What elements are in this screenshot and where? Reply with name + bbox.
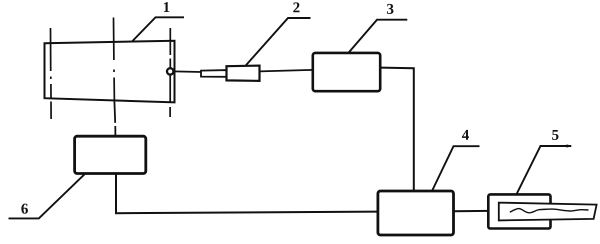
centerline right (169, 28, 171, 117)
block 3 (313, 53, 380, 91)
label 4 (462, 130, 469, 140)
wire block 3 to block 4 (381, 68, 414, 191)
centerline left (50, 28, 53, 119)
leader line 4 (432, 146, 480, 191)
label 2 (293, 2, 299, 12)
label 1 (164, 2, 170, 12)
sensor 2 body (227, 66, 260, 81)
block 1 body (test machine) (45, 41, 175, 103)
wire sensor to block 3 (260, 70, 314, 72)
block 5 paper strip (499, 203, 597, 221)
leader line 3 (348, 20, 407, 53)
sensor 2 shaft (thin box) (201, 70, 227, 77)
block 6 (75, 136, 146, 173)
label 6 (21, 204, 28, 214)
block 4 (378, 191, 454, 235)
centerline middle (113, 18, 116, 102)
leader line 6 (9, 174, 86, 219)
wire block 6 to block 4 (116, 174, 378, 214)
wire block 1 to block 6 (114, 101, 115, 137)
label 3 (387, 4, 393, 14)
block 5 recorder outer case (488, 194, 550, 228)
label 5 (552, 130, 558, 140)
leader line 2 (246, 18, 311, 66)
leader line 1 (133, 17, 185, 41)
recorded trace (wavy line) (510, 209, 589, 213)
shaft coupling circle (167, 68, 173, 74)
leader 5 arrow tip (567, 144, 573, 147)
wire shaft to sensor (174, 70, 202, 73)
leader line 5 (516, 146, 571, 194)
wire block 4 to recorder 5 (454, 210, 489, 212)
